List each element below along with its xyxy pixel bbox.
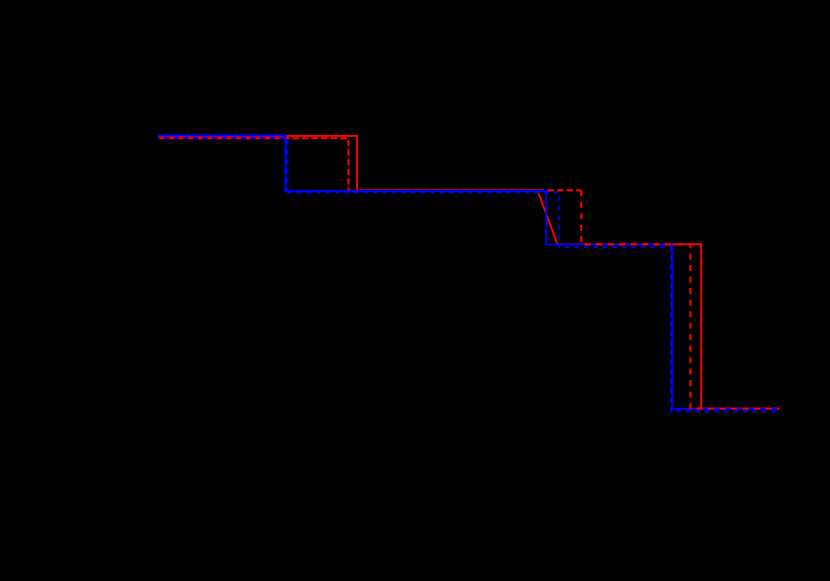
curve dashed red, right part (top layer) [581, 190, 779, 408]
curve solid red (step function, bottom layer) [158, 136, 780, 409]
curve dashed red, left part (under solid blue) [158, 138, 581, 190]
curve dashed blue, left part (interleaved with dashed red) [158, 138, 287, 193]
curve solid blue (step function) [158, 135, 780, 409]
curve dashed blue, right part (step function) [287, 192, 779, 411]
